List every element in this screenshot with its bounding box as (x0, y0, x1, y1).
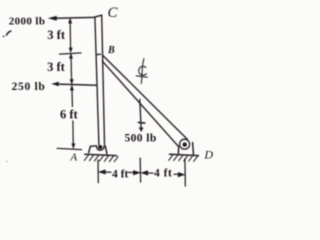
member BD lower edge (102, 61, 178, 146)
svg-text:A: A (69, 151, 77, 163)
ground hatching at A (84, 155, 118, 162)
pin support at D (170, 139, 199, 155)
stray scan mark top left (7, 31, 11, 35)
svg-text:2000 lb: 2000 lb (9, 16, 46, 28)
member AC column right edge (102, 15, 105, 144)
svg-text:B: B (107, 45, 115, 56)
svg-text:3 ft: 3 ft (47, 60, 66, 74)
svg-text:C: C (108, 5, 119, 21)
svg-text:4 ft: 4 ft (112, 169, 128, 181)
faint scan dot lower left (6, 161, 8, 163)
tick mark on column at B (97, 53, 101, 56)
dimension line 4 ft left segment (99, 170, 140, 175)
ground hatching at D (169, 155, 198, 162)
member BD upper edge (103, 55, 188, 139)
force arrow 250 lb (52, 82, 96, 86)
dimension line 3 ft lower segment (69, 53, 73, 84)
bottom dimension left tick (97, 160, 99, 183)
dimension tick between the 3 ft segments (60, 53, 82, 54)
bottom dimension middle tick (139, 158, 141, 182)
svg-text:250 lb: 250 lb (12, 81, 46, 93)
svg-text:D: D (203, 148, 213, 162)
dimension bottom tick at A level (57, 148, 81, 149)
svg-text:4 ft: 4 ft (154, 168, 172, 180)
dimension line 4 ft right segment (141, 171, 185, 177)
centerline symbol on BD (136, 59, 147, 84)
force arrow 2000 lb (49, 16, 95, 20)
svg-text:3 ft: 3 ft (47, 28, 66, 42)
bottom dimension right tick (184, 159, 186, 186)
force arrow 500 lb (138, 100, 144, 132)
svg-text:500 lb: 500 lb (125, 132, 157, 144)
dimension line 6 ft segment (70, 85, 75, 148)
column top cap at C (95, 15, 102, 17)
svg-text:6 ft: 6 ft (60, 108, 79, 122)
dimension line 3 ft upper segment (69, 18, 73, 52)
pin support at A (85, 145, 117, 156)
member AC column left edge (95, 17, 99, 144)
